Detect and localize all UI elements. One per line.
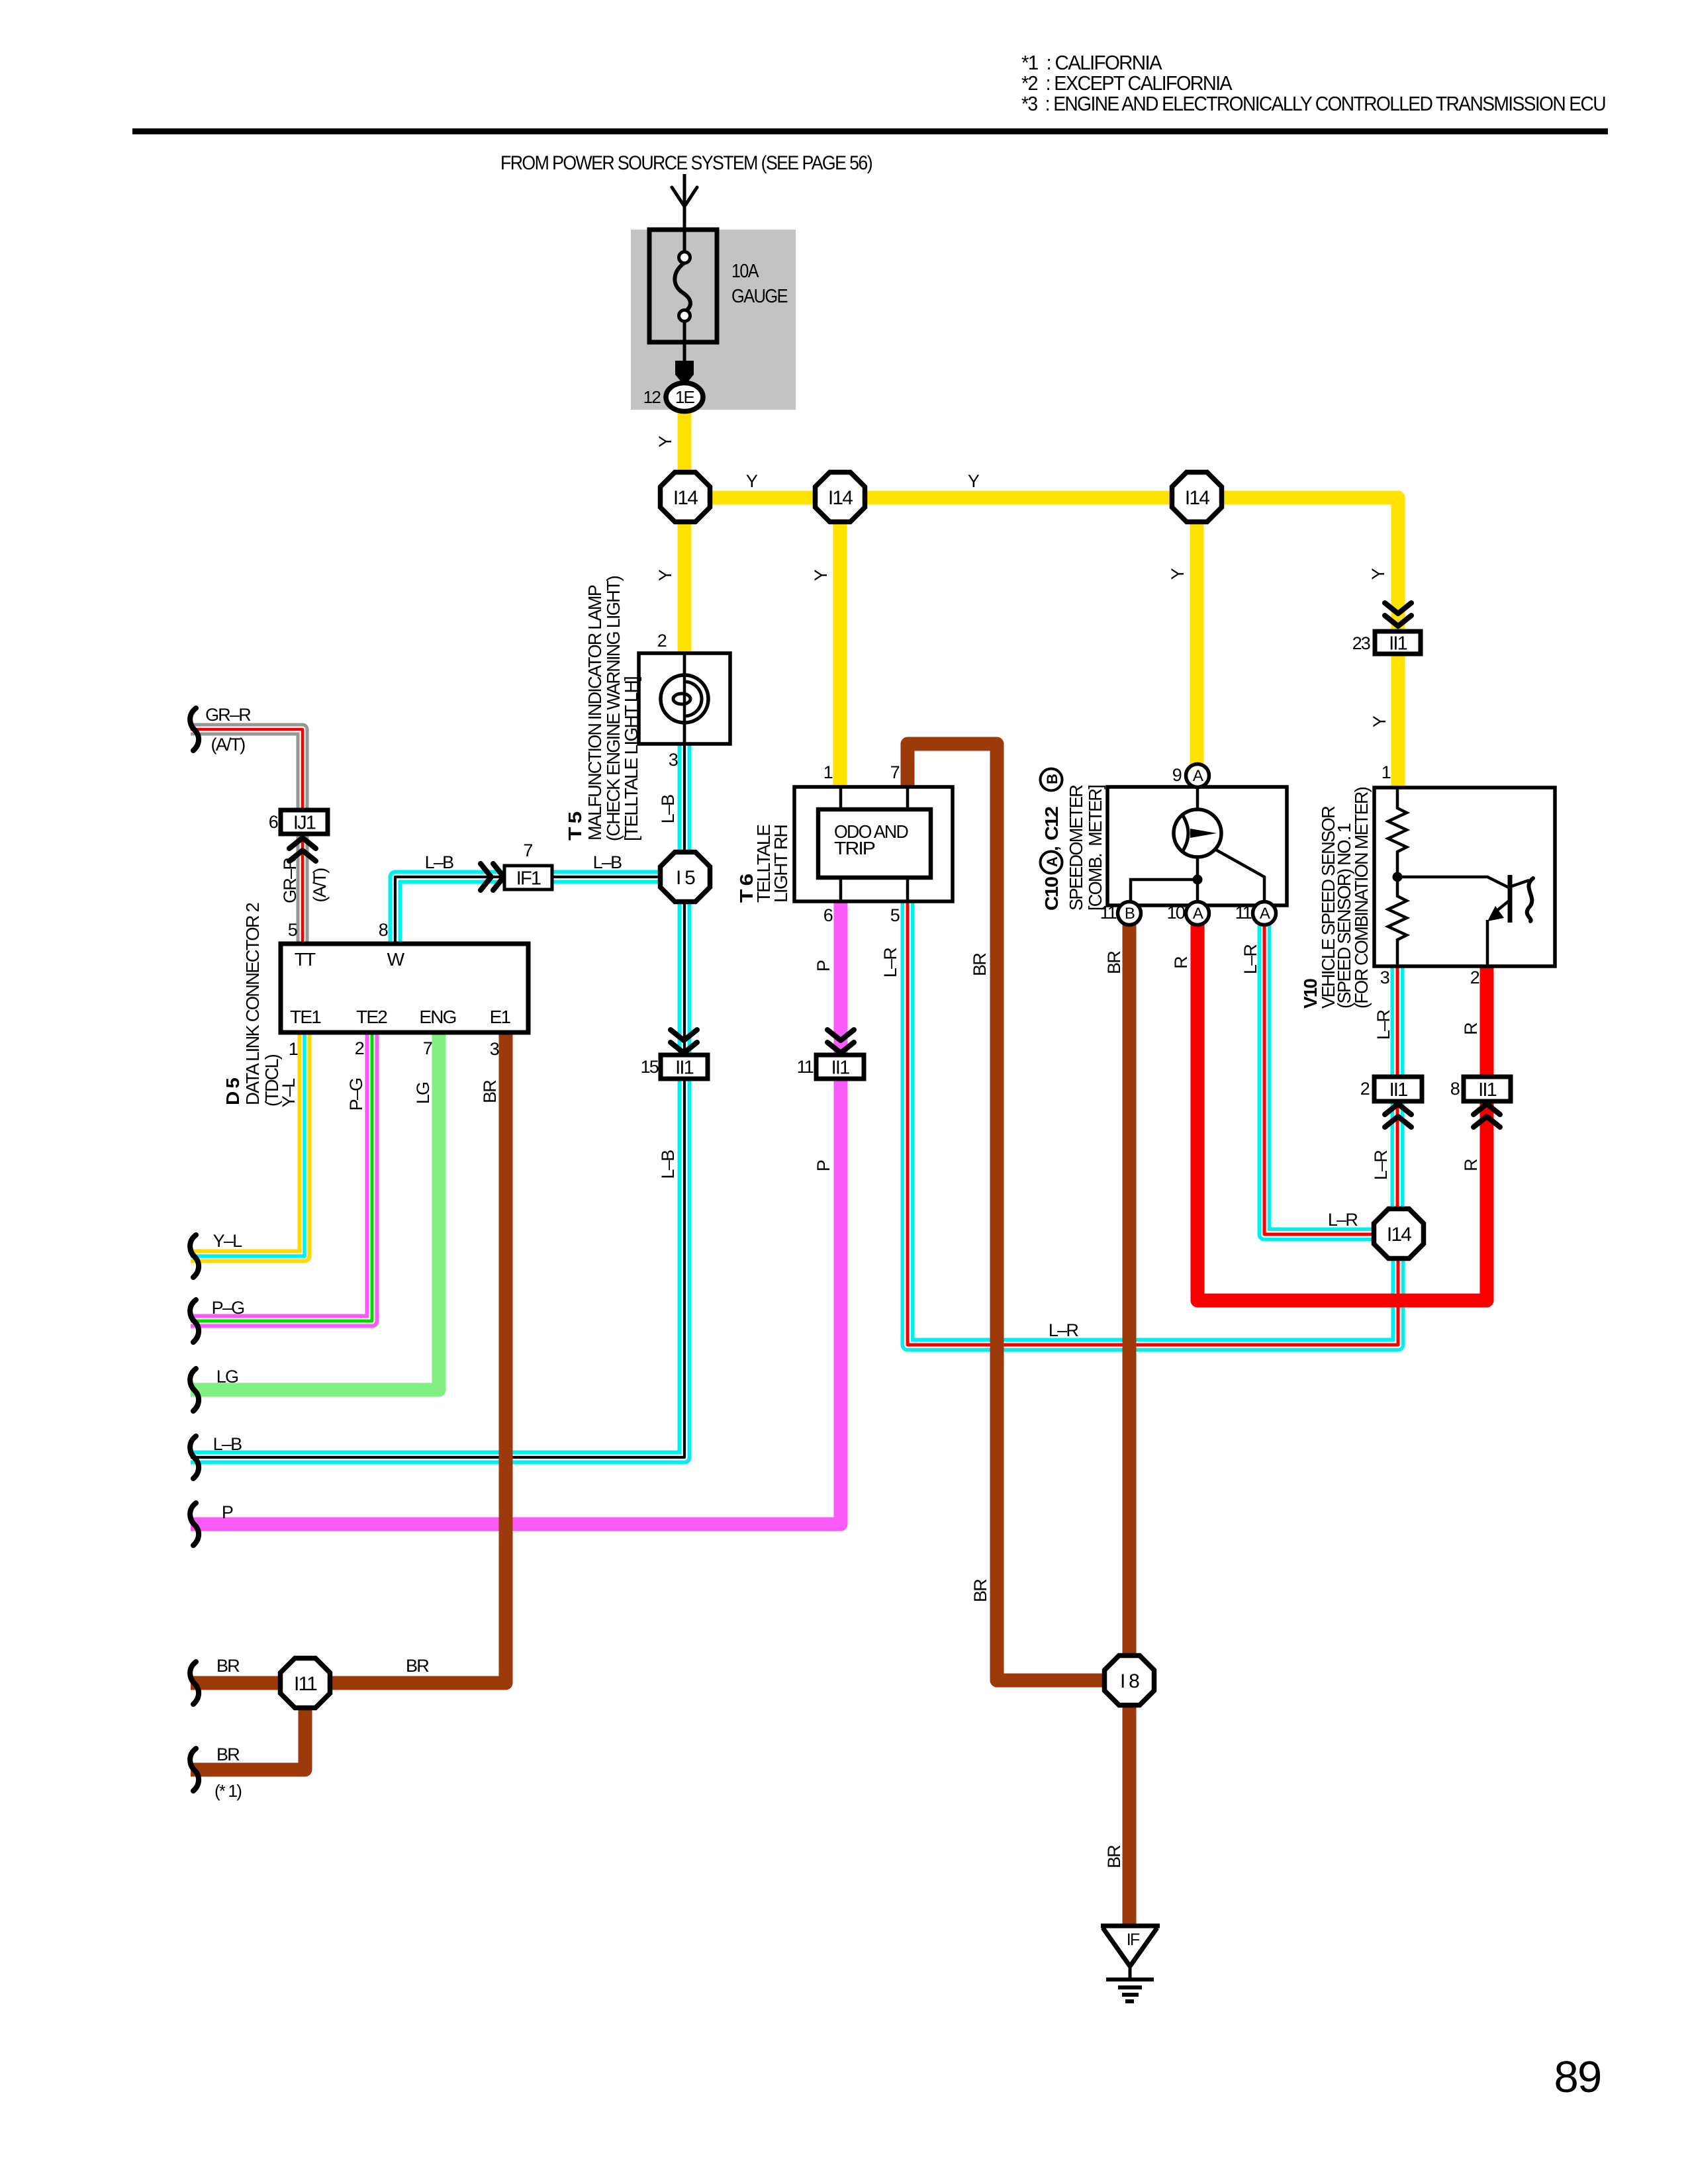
- off-page break LG: [190, 1369, 199, 1411]
- svg-text:LG: LG: [216, 1367, 238, 1387]
- svg-text:10A: 10A: [731, 261, 759, 282]
- svg-text:I14: I14: [1185, 487, 1209, 509]
- svg-text:L–R: L–R: [1049, 1320, 1078, 1340]
- svg-text:P–G: P–G: [346, 1079, 366, 1111]
- svg-text:L–B: L–B: [658, 1150, 678, 1179]
- wire Y branch to telltale T6 pin 1: [833, 498, 847, 787]
- junction dot V10: [1393, 872, 1403, 882]
- svg-text:TE2: TE2: [356, 1007, 387, 1027]
- svg-text:*3 : ENGINE AND ELECTRONICALL: *3 : ENGINE AND ELECTRONICALLY CONTROLLE…: [1021, 92, 1605, 115]
- svg-text:SPEEDOMETER: SPEEDOMETER: [1066, 785, 1086, 911]
- svg-text:5: 5: [288, 920, 297, 940]
- svg-text:3: 3: [669, 750, 678, 770]
- svg-text:I14: I14: [828, 487, 853, 509]
- svg-text:A: A: [1044, 856, 1060, 867]
- svg-text:Y: Y: [746, 471, 758, 491]
- svg-text:I14: I14: [673, 487, 698, 509]
- svg-text:BR: BR: [970, 953, 990, 976]
- junction I14 third: [1172, 473, 1222, 522]
- junction dot: [1193, 875, 1203, 885]
- svg-text:GR–R: GR–R: [205, 705, 251, 725]
- chevron at II1 2: [1385, 1104, 1411, 1127]
- svg-text:9: 9: [1172, 765, 1182, 785]
- svg-text:A: A: [1193, 905, 1203, 923]
- wire BR from D5 E1 pin3 to I11 and off-page: [191, 1032, 506, 1683]
- svg-text:A: A: [1193, 767, 1203, 785]
- svg-text:I 8: I 8: [1120, 1670, 1139, 1692]
- svg-text:I 5: I 5: [676, 867, 695, 889]
- wire P-G from D5 TE2 pin2: [191, 1032, 372, 1321]
- wire R from speedometer pin 10 A to V10 pin 2: [1197, 925, 1487, 1300]
- svg-text:TT: TT: [295, 949, 316, 970]
- speedometer terminal 10 A: [1186, 902, 1209, 925]
- svg-text:C12: C12: [1041, 807, 1062, 841]
- svg-text:DATA LINK CONNECTOR 2: DATA LINK CONNECTOR 2: [242, 903, 263, 1105]
- svg-text:L–R: L–R: [1371, 1150, 1391, 1180]
- svg-text:IJ1: IJ1: [293, 813, 316, 834]
- svg-text:B: B: [1044, 774, 1060, 784]
- svg-text:B: B: [1125, 905, 1135, 923]
- junction I8: [1105, 1656, 1154, 1706]
- svg-text:BR: BR: [406, 1656, 429, 1676]
- off-page break BR: [190, 1662, 199, 1704]
- wire BR from I11 down to off-page (*1): [191, 1706, 305, 1770]
- svg-text:1: 1: [1382, 762, 1391, 782]
- speedometer gauge: [1174, 809, 1221, 857]
- svg-text:W: W: [387, 949, 405, 970]
- svg-text:7: 7: [890, 762, 900, 782]
- svg-text:Y: Y: [655, 435, 675, 447]
- connector II1 2: [1374, 1077, 1422, 1101]
- svg-text:(A/T): (A/T): [211, 735, 246, 754]
- fuse 10A GAUGE: [649, 230, 717, 342]
- svg-text:TRIP: TRIP: [834, 838, 875, 858]
- wire Y-L from D5 TE1 pin1: [191, 1032, 305, 1256]
- svg-text:TE1: TE1: [290, 1007, 321, 1027]
- svg-text:2: 2: [355, 1038, 364, 1058]
- svg-text:MALFUNCTION INDICATOR LAMP: MALFUNCTION INDICATOR LAMP: [585, 585, 605, 841]
- connector II1 15: [661, 1055, 708, 1079]
- svg-text:Y: Y: [968, 471, 980, 491]
- off-page break P-G: [190, 1300, 199, 1342]
- svg-text:ENG: ENG: [419, 1007, 455, 1027]
- wire BR from T6 pin7 over and down to I8: [908, 744, 1129, 1680]
- speedometer terminal 9 A: [1186, 764, 1209, 788]
- svg-text:II1: II1: [675, 1058, 694, 1079]
- svg-text:II1: II1: [1389, 633, 1407, 655]
- svg-text:Y: Y: [1168, 568, 1188, 580]
- svg-text:*2 : EXCEPT CALIFORNIA: *2 : EXCEPT CALIFORNIA: [1021, 71, 1233, 95]
- wire from power source with arrow: [683, 174, 686, 230]
- junction I5: [661, 852, 710, 902]
- svg-text:2: 2: [1360, 1079, 1370, 1099]
- svg-text:R: R: [1461, 1023, 1481, 1035]
- off-page break L-B: [190, 1436, 199, 1479]
- svg-text:[COMB. METER]: [COMB. METER]: [1085, 786, 1105, 911]
- svg-text:L–R: L–R: [1241, 944, 1260, 974]
- wire LG from D5 ENG pin7: [191, 1032, 439, 1390]
- svg-text:7: 7: [423, 1038, 432, 1058]
- svg-text:8: 8: [1450, 1079, 1460, 1099]
- wire L-B MIL lamp pin3 down to I5: [678, 744, 692, 856]
- arrow into connector 1E: [683, 342, 686, 363]
- wire L-R from V10 pin 3 through II1 2 to I14: [1391, 966, 1405, 1234]
- svg-text:D 5: D 5: [222, 1078, 243, 1105]
- junction I14 lower: [1374, 1209, 1424, 1259]
- svg-text:Y: Y: [1368, 568, 1388, 580]
- svg-text:GR–R: GR–R: [280, 858, 300, 903]
- svg-text:BR: BR: [1104, 1845, 1124, 1868]
- svg-text:2: 2: [657, 631, 667, 651]
- speedometer C10 box: [1107, 787, 1287, 905]
- svg-text:*1 : CALIFORNIA: *1 : CALIFORNIA: [1021, 51, 1162, 74]
- lamp bulb: [661, 675, 708, 723]
- svg-text:BR: BR: [970, 1579, 990, 1602]
- svg-text:Y–L: Y–L: [279, 1078, 299, 1107]
- svg-text:Y: Y: [811, 569, 831, 581]
- svg-text:A: A: [1260, 905, 1270, 923]
- off-page break GR-R: [190, 708, 199, 751]
- wire Y branch to speedometer pin 9: [1190, 498, 1204, 766]
- fuse block gray background: [631, 230, 796, 410]
- svg-text:L–B: L–B: [425, 852, 453, 872]
- svg-text:8: 8: [379, 920, 388, 940]
- svg-text:Y–L: Y–L: [213, 1231, 242, 1251]
- wire L-B from D5 W pin8 to IF1 and I5: [395, 877, 665, 944]
- wire Y from II1 23 down to V10 pin 1: [1391, 654, 1405, 788]
- wire GR-R below IJ1 to D5 pin 5: [297, 834, 309, 944]
- connector II1 8: [1464, 1077, 1511, 1101]
- svg-text:L–R: L–R: [1374, 1010, 1393, 1040]
- connector IF1: [504, 866, 552, 889]
- chevron at IF1: [481, 864, 504, 890]
- wire L-B from I5 down to off-page: [191, 900, 684, 1457]
- connector IJ1: [281, 810, 328, 834]
- svg-text:BR: BR: [1104, 951, 1124, 974]
- svg-text:P: P: [814, 960, 833, 972]
- V10 vehicle speed sensor box: [1374, 788, 1555, 966]
- svg-text:C10: C10: [1041, 877, 1062, 911]
- svg-text:R: R: [1461, 1159, 1481, 1171]
- chevron at II1 8: [1474, 1104, 1500, 1127]
- svg-text:BR: BR: [216, 1656, 240, 1676]
- connector II1 11: [816, 1055, 864, 1079]
- svg-text:[TELLTALE LIGHT LH]: [TELLTALE LIGHT LH]: [621, 677, 641, 841]
- svg-text:15: 15: [641, 1057, 659, 1077]
- svg-text:,: ,: [1041, 847, 1062, 851]
- svg-text:1: 1: [289, 1039, 298, 1059]
- svg-text:L–B: L–B: [658, 795, 678, 823]
- svg-text:II1: II1: [1478, 1079, 1497, 1101]
- wire L-R from speedometer pin 11 A to I14: [1264, 925, 1398, 1234]
- chevron at II1 15: [671, 1030, 697, 1053]
- MIL lamp T5 box: [639, 653, 730, 744]
- svg-text:L–R: L–R: [880, 948, 900, 978]
- svg-text:1: 1: [823, 762, 833, 782]
- svg-text:5: 5: [890, 905, 900, 925]
- svg-text:II1: II1: [1389, 1079, 1408, 1101]
- svg-text:IF1: IF1: [516, 868, 541, 889]
- svg-text:7: 7: [523, 841, 532, 860]
- svg-text:P: P: [222, 1502, 233, 1522]
- svg-text:3: 3: [490, 1039, 499, 1059]
- wire Y main horizontal bus: [684, 498, 1398, 631]
- svg-text:LG: LG: [413, 1083, 433, 1104]
- svg-text:23: 23: [1352, 633, 1370, 653]
- resistor upper: [1388, 788, 1407, 877]
- svg-text:L–B: L–B: [213, 1434, 242, 1454]
- T6 telltale box: [794, 787, 953, 901]
- svg-text:BR: BR: [480, 1080, 500, 1103]
- wire BR from speedometer pin B down through I8 to ground IF: [1123, 925, 1137, 1926]
- svg-text:R: R: [1171, 956, 1191, 969]
- svg-text:10: 10: [1167, 903, 1185, 923]
- svg-text:L–R: L–R: [1328, 1210, 1358, 1230]
- svg-text:Y: Y: [655, 569, 675, 581]
- svg-text:I14: I14: [1387, 1224, 1411, 1246]
- svg-text:(* 1): (* 1): [214, 1781, 242, 1801]
- svg-text:11: 11: [1235, 903, 1252, 923]
- svg-text:11: 11: [1100, 903, 1117, 923]
- off-page break BR2: [190, 1749, 199, 1791]
- wire GR-R from A/T to IJ1 and D5 TT: [191, 729, 303, 810]
- svg-text:L–B: L–B: [593, 852, 622, 872]
- svg-text:P: P: [814, 1160, 833, 1171]
- off-page break P: [190, 1503, 199, 1545]
- chevron at IJ1: [289, 838, 316, 861]
- svg-text:LIGHT RH: LIGHT RH: [771, 825, 791, 903]
- wire Y from fuse 1E down to MIL lamp pin 2: [678, 405, 692, 653]
- svg-text:Y: Y: [1370, 715, 1389, 727]
- svg-text:GAUGE: GAUGE: [731, 286, 788, 307]
- speedometer terminal 11 A: [1253, 902, 1276, 925]
- svg-text:3: 3: [1380, 968, 1389, 987]
- header rule bar: [132, 128, 1608, 134]
- svg-text:2: 2: [1470, 968, 1479, 987]
- svg-text:6: 6: [269, 812, 278, 832]
- svg-text:T 5: T 5: [565, 812, 585, 841]
- off-page break Y-L: [190, 1235, 199, 1277]
- chevron at II1 23: [1385, 603, 1411, 626]
- junction I14 first: [661, 473, 710, 522]
- wire L-R from T6 pin5 to I14 lower: [908, 901, 1398, 1345]
- svg-text:6: 6: [823, 905, 833, 925]
- junction I11: [281, 1659, 330, 1708]
- connector 1E oval: [666, 383, 703, 412]
- chevron at II1 11: [827, 1030, 854, 1053]
- svg-text:(A/T): (A/T): [310, 868, 330, 903]
- resistor lower: [1388, 877, 1407, 966]
- svg-text:FROM POWER SOURCE SYSTEM (SEE: FROM POWER SOURCE SYSTEM (SEE PAGE 56): [500, 152, 872, 174]
- svg-text:P–G: P–G: [212, 1298, 244, 1318]
- ground IF: [1101, 1924, 1160, 1929]
- transistor Q: [1397, 877, 1509, 887]
- svg-text:BR: BR: [216, 1745, 240, 1764]
- odo and trip inner box: [818, 809, 931, 878]
- junction I14 second: [816, 473, 865, 522]
- svg-text:II1: II1: [831, 1058, 850, 1079]
- svg-text:I11: I11: [294, 1673, 317, 1695]
- svg-text:IF: IF: [1127, 1931, 1140, 1949]
- speedometer terminal 11 B: [1118, 902, 1141, 925]
- svg-text:E1: E1: [490, 1007, 511, 1027]
- svg-text:89: 89: [1554, 2052, 1601, 2102]
- wire P from T6 pin6 to off-page: [191, 901, 841, 1524]
- svg-text:1E: 1E: [675, 387, 695, 407]
- svg-text:(FOR COMBINATION METER): (FOR COMBINATION METER): [1351, 788, 1372, 1009]
- svg-text:12: 12: [643, 387, 661, 407]
- D5 data link connector box: [281, 944, 528, 1032]
- svg-text:11: 11: [797, 1057, 814, 1077]
